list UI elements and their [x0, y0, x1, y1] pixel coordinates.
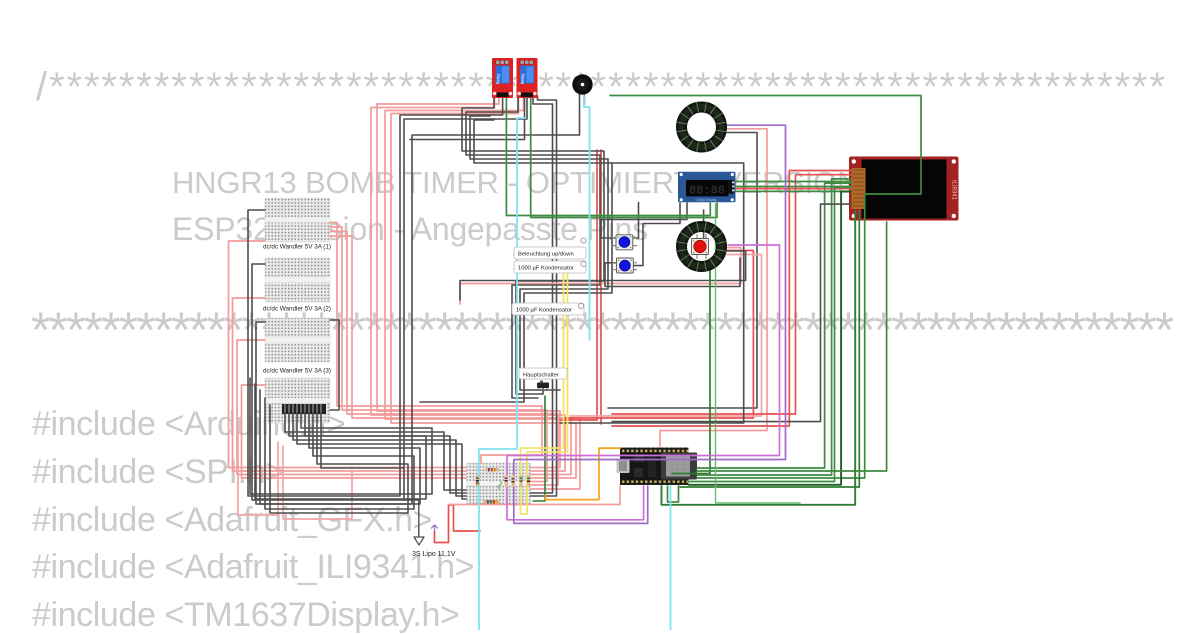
- red pushbutton in ring 2: [692, 234, 709, 259]
- wire gray header fan 3: [293, 413, 466, 496]
- wire green esp32 bottom hook: [668, 486, 679, 502]
- code include line 1: [32, 407, 345, 441]
- wire salmon bb2 left to mini breadboard: [233, 298, 467, 471]
- wire gray button1 right up: [633, 203, 639, 239]
- wire salmon relay2 LED to bundle: [391, 96, 576, 478]
- pin header on BB4: [282, 404, 326, 414]
- code title line 2: [172, 213, 648, 245]
- label box Hauptschalter: [519, 368, 567, 379]
- breadboard BB4: [265, 378, 330, 423]
- svg-text:Relay: Relay: [520, 73, 525, 85]
- wire gray header loop 7: [260, 390, 420, 504]
- wire gray relay2b maze staircase: [466, 96, 600, 398]
- svg-text:dc/dc Wandler 5V 3A (2): dc/dc Wandler 5V 3A (2): [263, 306, 331, 313]
- relay module 1: [492, 58, 513, 98]
- wire cyan buzzer down: [584, 96, 590, 340]
- wire gray vertical pair B: [531, 96, 557, 496]
- resistor R2 horizontal top: [485, 468, 499, 471]
- buzzer: [572, 74, 592, 94]
- resistor R3: [505, 475, 508, 487]
- code comment row 2: [31, 305, 1172, 355]
- wire red vertical C: [560, 150, 597, 420]
- wire green esp32 bottom to TFT pin: [662, 211, 856, 505]
- wire gray TFT pin down spine: [612, 204, 851, 422]
- wire green TFT pin drop 1: [697, 183, 851, 468]
- label box 1000uF Kondensator 1: [514, 261, 586, 273]
- wire gray maze to spine long: [560, 163, 744, 423]
- wire green ring2 bottom to esp32: [672, 260, 710, 474]
- wire violet ring1 to esp32 bottom: [514, 125, 786, 523]
- wire gray ring2 button top: [703, 210, 705, 238]
- wire yellow capacitor loop: [521, 272, 568, 514]
- wire green tm1637 right 4: [735, 190, 851, 192]
- wire green switch to minibb: [533, 396, 545, 501]
- wire gray header stub 10: [321, 413, 404, 468]
- svg-text:dc/dc Wandler 5V 3A (1): dc/dc Wandler 5V 3A (1): [263, 244, 331, 251]
- svg-text:dc/dc Wandler 5V 3A (3): dc/dc Wandler 5V 3A (3): [263, 368, 331, 375]
- code title line 1: [172, 167, 859, 198]
- wire gray relay2 to bb2 loop: [252, 96, 527, 500]
- wire gray header fan 4: [297, 413, 466, 499]
- wire gray maze staircase 5: [420, 120, 612, 402]
- wire gray header fan 2: [289, 413, 466, 493]
- wire gray relay2 extra: [410, 96, 525, 140]
- wire red box bottom left: [238, 430, 278, 515]
- wire green TFT pin drop 3: [689, 187, 852, 481]
- wire salmon ring1 down right spine to esp32: [660, 129, 767, 447]
- wire gray ring2 loop under buttons: [460, 251, 746, 300]
- code include line 5: [32, 598, 459, 632]
- wire green tm1637 right 2: [735, 186, 851, 188]
- wire salmon right spine C: [570, 255, 762, 417]
- label box 1000uF Kondensator 2: [512, 303, 584, 315]
- ground symbol: [414, 537, 424, 545]
- wire green tm1637 right 1: [735, 181, 851, 183]
- mini breadboard: [467, 463, 531, 505]
- blue pushbutton 2: [612, 258, 637, 273]
- svg-text:88:88: 88:88: [689, 184, 725, 198]
- wire salmon bb1 right row C: [330, 232, 558, 486]
- wire salmon relay1 to left vertical bundle: [377, 96, 560, 468]
- wire green relay2 to tm1637: [531, 96, 717, 218]
- wire gray box around bb3 bb4: [330, 320, 339, 410]
- wire green TFT pin drop 4: [689, 192, 852, 485]
- wire gray button2 right up: [633, 203, 680, 266]
- wire gray relay1b maze staircase: [462, 96, 604, 394]
- resistor R4: [512, 475, 515, 487]
- resistor R6: [527, 475, 530, 487]
- breadboard BB2 dc/dc Wandler 2: [265, 258, 330, 302]
- wire salmon long to esp32 bottom: [449, 486, 621, 505]
- TFT display ILI9341: [849, 157, 959, 221]
- svg-text:1000 µF Kondensator: 1000 µF Kondensator: [518, 266, 574, 272]
- wire salmon relay1 LED to bundle: [371, 96, 565, 471]
- wire green TFT pin drop 2: [697, 179, 851, 475]
- wire magenta ring2 to esp32 bottom: [507, 245, 780, 520]
- wire salmon bb1 left to mini breadboard: [229, 241, 467, 468]
- wire salmon bb1 right row B: [330, 227, 547, 482]
- svg-text:4-Digit Display: 4-Digit Display: [695, 198, 717, 202]
- wire green TFT pin drop 7: [697, 222, 887, 471]
- wire red tm1637 right 3: [735, 188, 851, 190]
- wire red box bottom left 2: [283, 446, 352, 519]
- wire red TFT pin down spine E: [612, 175, 851, 414]
- resistor R7 horizontal bottom: [484, 500, 499, 504]
- wire salmon bb4 left to mini breadboard: [242, 385, 467, 478]
- wire green relay1 to tm1637: [506, 96, 710, 216]
- wire red buzzer stub: [584, 95, 586, 104]
- wire salmon under buttons: [460, 248, 741, 305]
- wire green long top to TFT and down to esp32: [610, 96, 921, 479]
- neopixel ring 1: [677, 102, 727, 152]
- svg-text:3S Lipo 11,1V: 3S Lipo 11,1V: [412, 551, 456, 558]
- ESP32 dev board: [617, 448, 698, 486]
- wire gray header loop 5: [250, 378, 432, 494]
- code include line 2: [32, 455, 285, 489]
- wire gray ground from bundle: [403, 500, 419, 536]
- wire gray header loop 9: [270, 405, 408, 513]
- wire gray header fan 1: [285, 413, 466, 490]
- wire gray vertical pair A: [531, 96, 553, 493]
- wire gray maze staircase 4: [520, 159, 608, 390]
- svg-text:Beleuchtung up/down: Beleuchtung up/down: [518, 252, 574, 258]
- svg-text:1000 µF Kondensator: 1000 µF Kondensator: [516, 308, 572, 314]
- resistor R1 on mini breadboard: [476, 475, 479, 487]
- svg-text:Relay: Relay: [496, 73, 501, 85]
- wire gray relay1 to bb1 loop: [248, 96, 503, 496]
- wire green tm down long: [716, 204, 801, 503]
- wire gray button1 left up: [601, 203, 687, 238]
- TM1637 display: [678, 172, 736, 202]
- wire salmon bb1 right row A: [330, 223, 542, 464]
- code include line 4: [32, 550, 474, 584]
- label box Beleuchtung up/down: [514, 238, 586, 259]
- wire red vertical D: [600, 150, 602, 424]
- wire gray maze staircase 3: [470, 116, 608, 159]
- neopixel ring 2: [677, 222, 727, 272]
- wire purple battery stub: [432, 525, 438, 531]
- wire gray header loop 6: [255, 384, 426, 499]
- wire red right spine B: [565, 251, 753, 419]
- wire orange esp32 to mini bb: [546, 448, 621, 499]
- wire cyan left long down: [479, 118, 525, 630]
- inductor squiggle on mini bb: [499, 481, 502, 489]
- wire red TFT pin down spine D: [612, 171, 851, 427]
- wire gray button2 left down: [605, 258, 740, 287]
- breadboard BB1 dc/dc Wandler 1: [265, 198, 330, 242]
- wire gray ring1 right spine: [608, 133, 757, 409]
- breadboard BB3 dc/dc Wandler 3: [265, 318, 330, 362]
- switch Hauptschalter: [537, 381, 549, 392]
- wire red battery hook: [435, 505, 481, 543]
- blue pushbutton 1: [612, 235, 637, 250]
- code include line 3: [32, 503, 432, 537]
- svg-text:ILI9341: ILI9341: [951, 180, 957, 201]
- wire cyan esp32 down: [670, 486, 672, 630]
- wire gray header loop 8: [265, 398, 414, 509]
- relay module 2: [517, 58, 538, 98]
- wire salmon bb3 left to mini breadboard: [237, 340, 466, 475]
- wire green TFT pin drop 6: [680, 211, 859, 487]
- code comment row 1: [36, 67, 1167, 107]
- wire gray buzzer to bb3 loop: [256, 94, 580, 504]
- wire salmon bb1 right row D: [330, 236, 580, 489]
- wire salmon relay2 to bundle: [385, 96, 571, 475]
- svg-text:Hauptschalter: Hauptschalter: [523, 373, 559, 379]
- resistor R5: [520, 475, 523, 487]
